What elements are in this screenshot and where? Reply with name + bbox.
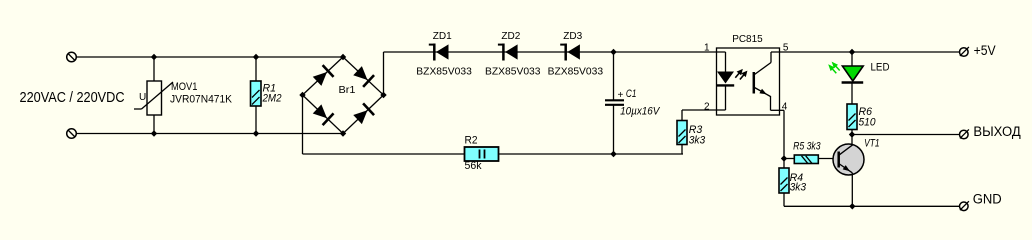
- diode opto LED: [717, 72, 735, 86]
- wire pin4 down: [783, 110, 785, 158]
- wire R3 bottom: [681, 145, 683, 155]
- terminal VYHOD: [960, 129, 969, 138]
- wire GND rail: [784, 205, 960, 207]
- terminal +5V: [960, 47, 969, 56]
- wire low rail: [303, 153, 684, 155]
- svg-text:10µx16V: 10µx16V: [620, 105, 661, 117]
- node bridge bottom: [340, 130, 346, 136]
- node R4 R5 pin4 junction: [781, 155, 787, 161]
- wire emitter down: [851, 173, 853, 207]
- bridge Br1 diamond wires: [303, 57, 384, 134]
- svg-text:+: +: [618, 90, 624, 101]
- wire pin2: [682, 109, 726, 111]
- diode Br1 bottom-right: [352, 103, 374, 125]
- svg-text:2M2: 2M2: [262, 93, 282, 105]
- wire LED top stub: [851, 52, 853, 66]
- svg-text:ZD2: ZD2: [501, 30, 520, 42]
- node C1 rail: [610, 151, 616, 157]
- zener ZD3: [560, 44, 580, 61]
- capacitor C1: [605, 100, 624, 105]
- diode Br1 bottom-left: [312, 103, 334, 125]
- wire R3 top from pin2: [681, 110, 683, 121]
- zener ZD1: [429, 44, 449, 61]
- svg-text:3k3: 3k3: [689, 135, 706, 147]
- svg-text:ВЫХОД: ВЫХОД: [973, 124, 1020, 139]
- diode Br1 top-left: [312, 65, 334, 87]
- node LED branch top: [849, 49, 855, 55]
- node emitter GND: [849, 203, 855, 209]
- wire MOV1 top stub: [153, 57, 155, 81]
- wire bridge right node up: [383, 52, 385, 95]
- wire C1 bottom: [613, 105, 615, 154]
- wire collector: [851, 135, 853, 147]
- terminal GND: [960, 201, 969, 210]
- wire R5 left stub: [784, 158, 794, 160]
- svg-text:BZX85V033: BZX85V033: [548, 65, 604, 77]
- resistor R6: [847, 104, 857, 130]
- node R1 bottom: [253, 130, 259, 136]
- LED D1: [842, 66, 864, 83]
- wire LED cathode vertical: [725, 85, 727, 110]
- wire R5 to base: [818, 158, 838, 160]
- wire bottom AC: [76, 133, 343, 135]
- opto light arrow 2: [740, 71, 748, 80]
- LED arrows: [828, 62, 840, 74]
- wire LED cathode to R6: [851, 83, 853, 104]
- opto collector: [755, 52, 772, 75]
- wire R1 top stub: [255, 57, 257, 81]
- svg-text:R5 3k3: R5 3k3: [793, 141, 821, 153]
- resistor R3: [677, 121, 687, 145]
- varistor MOV1: [134, 81, 173, 115]
- svg-text:BZX85V033: BZX85V033: [485, 65, 541, 77]
- opto emitter: [755, 88, 785, 111]
- wire bridge left node down: [302, 95, 304, 154]
- op-amp U1 PC815 box: [717, 48, 780, 115]
- wire R4 bottom: [783, 193, 785, 206]
- resistor R1: [251, 81, 262, 106]
- transistor Q1 VT1: [833, 144, 864, 175]
- svg-text:56k: 56k: [465, 160, 482, 172]
- terminal input bottom: [67, 129, 77, 139]
- wire top AC: [76, 56, 343, 58]
- node R1 top: [253, 54, 259, 60]
- svg-text:220VAC / 220VDC: 220VAC / 220VDC: [20, 90, 125, 106]
- svg-text:ZD1: ZD1: [433, 30, 452, 42]
- svg-text:JVR07N471K: JVR07N471K: [170, 94, 233, 106]
- node bridge right: [380, 92, 386, 98]
- resistor R5: [794, 155, 818, 164]
- resistor R2: [465, 147, 499, 161]
- svg-text:PC815: PC815: [732, 33, 763, 45]
- wire C1 top: [613, 52, 615, 100]
- wire R4 top stub: [783, 159, 785, 169]
- svg-text:510: 510: [859, 117, 877, 129]
- svg-text:+5V: +5V: [974, 43, 996, 58]
- wire top rail to PC815: [384, 51, 726, 53]
- opto light arrow 1: [735, 69, 743, 78]
- wire R6 bottom: [851, 130, 853, 135]
- svg-text:LED: LED: [871, 62, 890, 74]
- diode Br1 top-right: [352, 65, 374, 87]
- wire R1 bottom stub: [255, 106, 257, 134]
- svg-text:1: 1: [704, 43, 710, 54]
- wire VYHOD: [852, 134, 960, 136]
- svg-text:VT1: VT1: [864, 137, 880, 149]
- node bridge top: [340, 54, 346, 60]
- terminal input top: [67, 52, 77, 62]
- node VYHOD junction: [849, 131, 855, 137]
- svg-text:BZX85V033: BZX85V033: [416, 65, 472, 77]
- node MOV1 bottom: [151, 130, 157, 136]
- svg-text:GND: GND: [973, 192, 1002, 207]
- wire MOV1 bottom stub: [153, 115, 155, 134]
- svg-text:3k3: 3k3: [790, 182, 807, 194]
- svg-text:2: 2: [704, 102, 710, 113]
- svg-text:R2: R2: [465, 135, 478, 147]
- svg-text:C1: C1: [626, 88, 637, 100]
- node bridge left: [299, 92, 305, 98]
- svg-text:U: U: [139, 92, 146, 103]
- node zener rail / C1: [610, 49, 616, 55]
- wire pin5 to +5V: [771, 51, 960, 53]
- zener ZD2: [498, 44, 518, 61]
- svg-text:MOV1: MOV1: [171, 81, 198, 93]
- node MOV1 top: [151, 54, 157, 60]
- opto transistor base bar: [753, 72, 756, 94]
- svg-text:ZD3: ZD3: [563, 30, 582, 42]
- wire LED anode vertical: [725, 52, 727, 72]
- resistor R4: [779, 168, 789, 193]
- svg-text:Br1: Br1: [339, 84, 356, 96]
